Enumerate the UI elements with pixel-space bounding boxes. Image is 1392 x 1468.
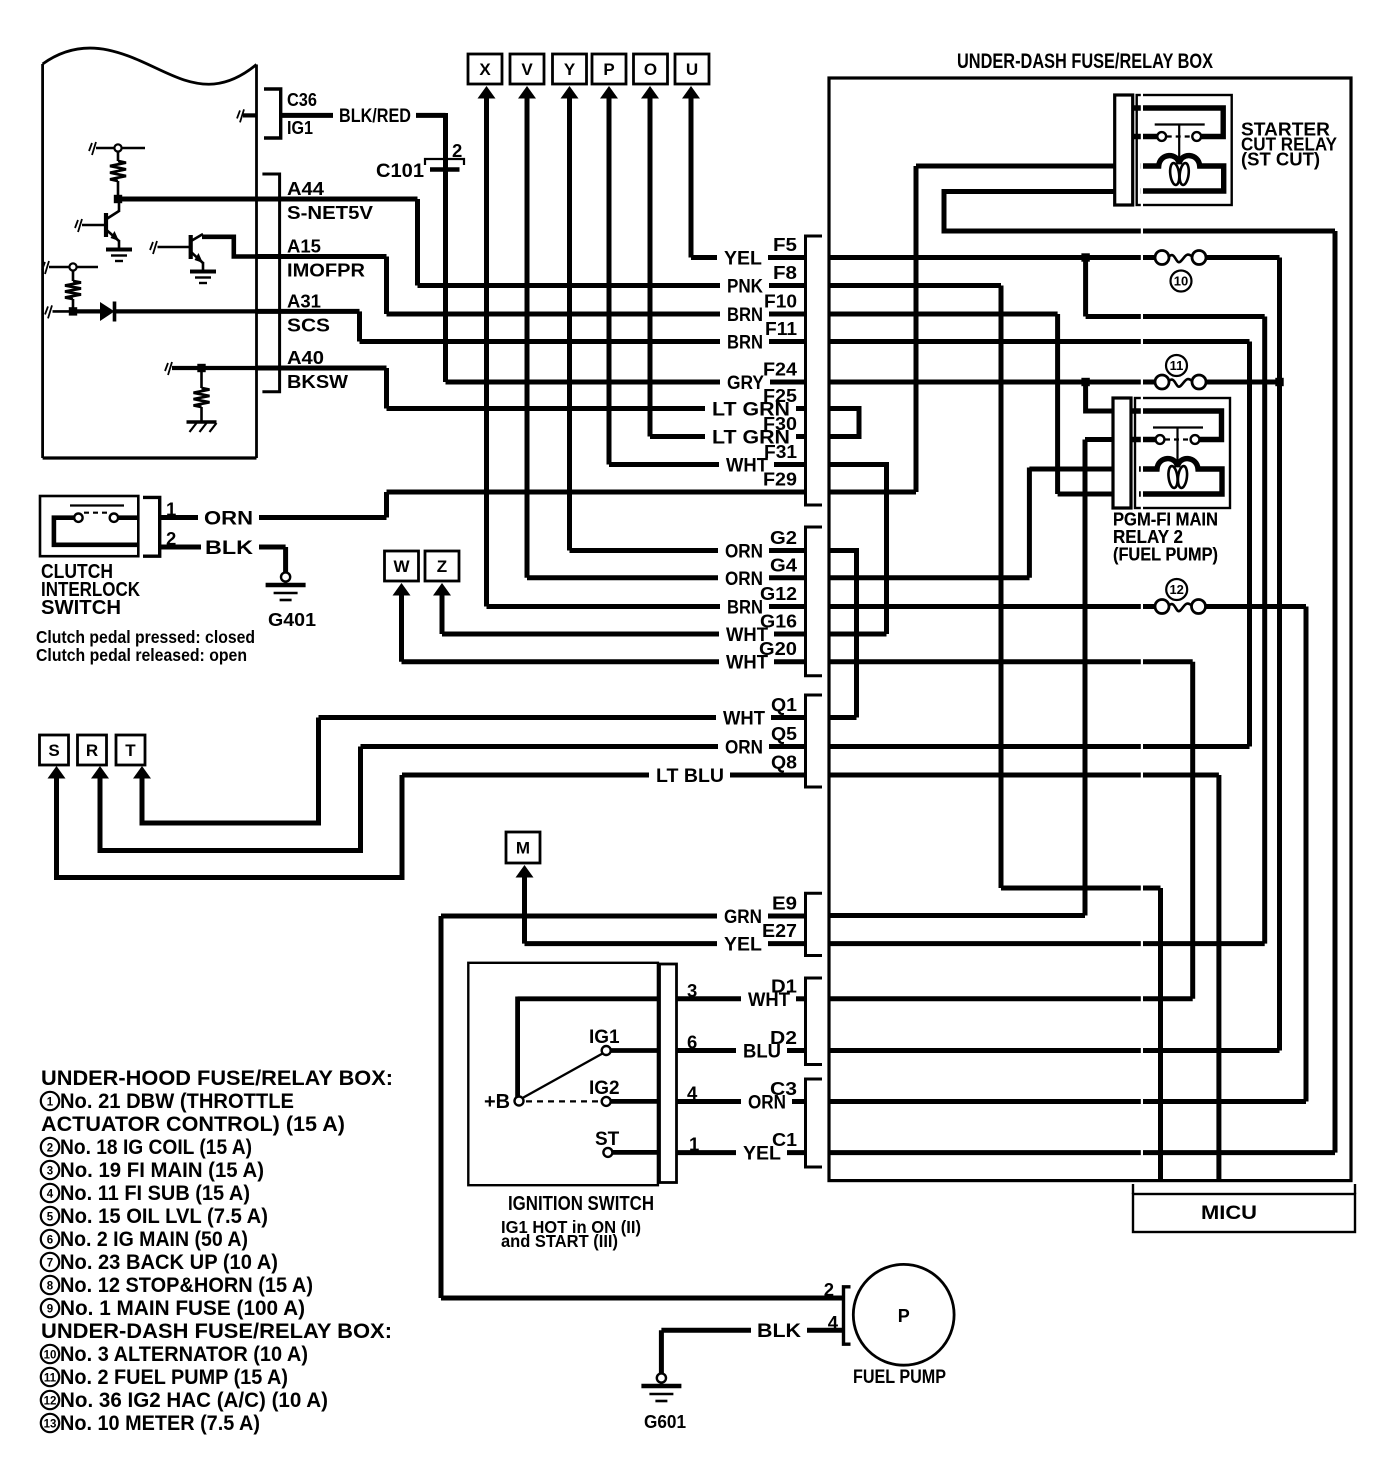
wire BLK down to G601	[659, 1330, 664, 1373]
svg-text:WHT: WHT	[723, 708, 765, 730]
svg-text:3: 3	[47, 1166, 53, 1178]
connector Y box	[553, 54, 587, 84]
wire A15 jog down to BRN/F10 row	[384, 257, 389, 315]
connector P arrow	[600, 86, 618, 99]
wire C1 row inside box	[829, 1150, 1335, 1155]
under-dash fuse/relay box outline	[829, 78, 1351, 1181]
wire stem from U	[689, 97, 694, 258]
svg-text:O: O	[644, 60, 657, 79]
wire link y888	[1001, 886, 1161, 891]
wire stem from M to E27 row	[522, 876, 527, 944]
svg-text:G601: G601	[644, 1411, 686, 1432]
fuse 11	[1155, 375, 1206, 389]
wire G2 row inside box	[829, 551, 857, 718]
wire X corner to BRN/G12 row	[487, 604, 806, 609]
clutch switch contact blade	[70, 504, 124, 506]
chassis ground at BKSW resistor	[187, 422, 217, 432]
svg-text:BKSW: BKSW	[287, 371, 349, 392]
legend item 6: No. 2 IG MAIN (50 A)	[41, 1227, 248, 1251]
wire relay 2 coil feed from G4 riser	[1029, 467, 1113, 472]
wire E27 row inside box	[829, 941, 1265, 946]
svg-text:S: S	[48, 741, 59, 760]
wire x1057 from F10 down	[1055, 314, 1060, 494]
svg-text:GRY: GRY	[727, 372, 764, 394]
wire F29 row inside box	[829, 490, 916, 495]
wire x1264 from E27 up to y316	[1262, 317, 1267, 944]
svg-text:F10: F10	[764, 292, 797, 312]
clutch interlock switch box	[40, 496, 138, 556]
wire D1 row inside box	[829, 996, 1193, 1001]
svg-text:BLK: BLK	[757, 1320, 801, 1342]
wire x886 down to G16 row	[884, 492, 889, 634]
legend item 12: No. 36 IG2 HAC (A/C) (10 A)	[41, 1388, 328, 1412]
connector Y arrow	[561, 86, 579, 99]
svg-text:No. 3 ALTERNATOR (10 A): No. 3 ALTERNATOR (10 A)	[60, 1342, 308, 1366]
wire LT BLU/Q8 row	[402, 773, 806, 778]
svg-text:BLK/RED: BLK/RED	[339, 105, 411, 127]
wire from C101 down to GRY/F24 row	[443, 159, 448, 382]
svg-text:F11: F11	[765, 319, 797, 339]
ignition IG2 contact	[602, 1097, 658, 1106]
wire WHT/F31 row	[609, 462, 806, 467]
legend item 13: No. 10 METER (7.5 A)	[41, 1411, 260, 1435]
connector T box	[116, 735, 145, 765]
svg-text:GRN: GRN	[724, 906, 762, 928]
svg-text:E9: E9	[772, 894, 797, 914]
in-line connector C101	[425, 159, 464, 170]
svg-text:No. 15 OIL LVL (7.5 A): No. 15 OIL LVL (7.5 A)	[60, 1204, 268, 1228]
connector M box	[506, 832, 540, 863]
wire F25 jumper to F30 inside box	[829, 409, 859, 437]
wire x1001 from F8 down	[999, 286, 1004, 889]
svg-text:Y: Y	[564, 60, 576, 79]
svg-text:Clutch pedal pressed: closed: Clutch pedal pressed: closed	[36, 627, 255, 647]
junction dot fuse11 out	[1275, 378, 1283, 386]
svg-text:A44: A44	[287, 178, 325, 199]
connector X arrow	[478, 86, 496, 99]
wire stem from X	[484, 97, 489, 607]
svg-text:UNDER-DASH FUSE/RELAY BOX: UNDER-DASH FUSE/RELAY BOX	[957, 49, 1213, 73]
connector bracket clutch switch	[143, 497, 160, 556]
wire x1335 from relay return down to C1 row	[1333, 231, 1338, 1153]
wire LT GRN/F25 row	[387, 406, 806, 411]
transistor Q-b (NPN, collector to A15/IMOFPR)	[191, 234, 257, 271]
svg-text:C36: C36	[287, 89, 317, 110]
wire F5 row inside box	[829, 255, 1280, 260]
legend item 1: No. 21 DBW (THROTTLE	[41, 1089, 294, 1113]
svg-text:10: 10	[1174, 274, 1188, 289]
connector W box	[385, 551, 419, 581]
svg-text:No. 36 IG2 HAC (A/C) (10 A): No. 36 IG2 HAC (A/C) (10 A)	[60, 1388, 328, 1412]
wire y316 link from x1085	[1086, 314, 1265, 319]
wire GRN/E9 row	[441, 914, 806, 919]
connector M arrow	[516, 865, 534, 878]
svg-text:No. 18 IG COIL (15 A): No. 18 IG COIL (15 A)	[60, 1135, 252, 1159]
svg-text:BRN: BRN	[727, 304, 763, 326]
internal supply rail with terminal circle (top)	[89, 142, 145, 155]
wire x1218 from Q8 down to MICU	[1216, 775, 1221, 1181]
wire WHT/Q1 row	[319, 715, 806, 720]
svg-text:ORN: ORN	[725, 737, 763, 759]
ignition switch +B riser	[515, 997, 520, 1102]
svg-text:SCS: SCS	[287, 314, 330, 335]
svg-text:UNDER-DASH FUSE/RELAY BOX:: UNDER-DASH FUSE/RELAY BOX:	[41, 1319, 392, 1343]
wire stem from Y	[567, 97, 572, 551]
connector T arrow	[133, 766, 151, 779]
connector bracket ignition switch	[660, 964, 677, 1183]
connector O box	[634, 54, 668, 84]
wire WHT/D1 row	[677, 996, 806, 1001]
resistor R-a (pull-up to A44 node)	[110, 151, 126, 199]
wire C3 row inside box	[829, 1099, 1306, 1104]
svg-text:D1: D1	[771, 976, 797, 996]
svg-text:V: V	[521, 60, 533, 79]
wire G16 row inside box	[829, 632, 887, 637]
svg-text:Q1: Q1	[771, 695, 797, 715]
wire GRY/F24 row	[446, 380, 806, 385]
legend item 9: No. 1 MAIN FUSE (100 A)	[41, 1296, 305, 1320]
svg-text:No. 2 FUEL PUMP (15 A): No. 2 FUEL PUMP (15 A)	[60, 1365, 288, 1389]
svg-text:2: 2	[452, 140, 462, 161]
svg-text:ACTUATOR CONTROL) (15 A): ACTUATOR CONTROL) (15 A)	[41, 1112, 345, 1136]
svg-text:A15: A15	[287, 236, 321, 257]
transistor Q-b base wire	[150, 241, 189, 254]
connector bracket fuel pump	[844, 1287, 851, 1344]
fuse 12 number	[1166, 579, 1187, 600]
svg-text:G16: G16	[760, 612, 797, 632]
wire Q5 row inside box	[829, 744, 1250, 749]
svg-text:IG1: IG1	[287, 117, 313, 138]
svg-text:IG2: IG2	[589, 1078, 620, 1099]
wire W corner to WHT/G20 row	[402, 659, 806, 664]
relay PGM-FI main relay 2	[1113, 398, 1230, 508]
svg-text:11: 11	[1170, 358, 1184, 373]
relay starter cut (ST CUT)	[1115, 95, 1232, 205]
svg-text:E27: E27	[762, 921, 797, 941]
legend item 11: No. 2 FUEL PUMP (15 A)	[41, 1365, 288, 1389]
legend item 5: No. 15 OIL LVL (7.5 A)	[41, 1204, 268, 1228]
wire from S to Q8 row	[57, 775, 403, 878]
svg-text:YEL: YEL	[724, 934, 762, 956]
svg-text:ORN: ORN	[204, 508, 253, 530]
svg-text:(FUEL PUMP): (FUEL PUMP)	[1113, 544, 1218, 565]
wire x1085 from F24 dot to relay 2 contact	[1086, 382, 1113, 411]
fuse 10 number	[1171, 271, 1192, 292]
wire F29 row from clutch ORN	[387, 490, 806, 495]
wire BLK/RED from IG1 pin	[281, 113, 446, 118]
svg-text:BLK: BLK	[205, 537, 253, 559]
wire fuel pump feed row	[441, 1296, 844, 1301]
wire E9 row inside box	[829, 913, 1085, 918]
svg-text:2: 2	[47, 1143, 53, 1155]
connector U box	[675, 54, 709, 84]
internal rail with terminal circle (A31 pull-up)	[42, 261, 98, 274]
svg-text:No. 2 IG MAIN (50 A): No. 2 IG MAIN (50 A)	[60, 1227, 248, 1251]
clutch switch dashed state line	[84, 512, 109, 514]
wire BLU/D2 row	[677, 1048, 806, 1053]
svg-text:(ST CUT): (ST CUT)	[1241, 150, 1320, 170]
svg-text:G2: G2	[770, 528, 797, 548]
wire A15 row from ECM	[257, 254, 387, 259]
svg-text:S-NET5V: S-NET5V	[287, 202, 374, 223]
wire E9 drop to fuel pump feed	[439, 916, 444, 1298]
ignition ST contact	[603, 1148, 658, 1157]
connector S arrow	[48, 766, 66, 779]
wire x1279 fuse output down to D2 row	[1277, 258, 1282, 1051]
wire G4 row inside box	[829, 575, 1030, 580]
wire BLK from clutch pin 2	[160, 545, 286, 550]
terminal +B circle	[515, 1097, 524, 1106]
fuse 11 number	[1166, 355, 1187, 376]
connector R box	[78, 735, 107, 765]
svg-text:ORN: ORN	[725, 568, 763, 590]
connector Z box	[425, 551, 459, 581]
svg-text:11: 11	[44, 1373, 57, 1385]
svg-text:F30: F30	[763, 414, 797, 434]
svg-text:5: 5	[47, 1212, 54, 1224]
legend item 8: No. 12 STOP&HORN (15 A)	[41, 1273, 313, 1297]
connector bracket A-pins	[262, 174, 279, 392]
wire from R to Q5 row	[100, 747, 361, 851]
ignition switch +B feed wire	[518, 996, 658, 1001]
MICU box	[1133, 1184, 1355, 1232]
connector W arrow	[393, 583, 411, 596]
svg-text:F29: F29	[763, 470, 797, 490]
svg-text:6: 6	[47, 1235, 53, 1247]
wire LT GRN/F30 row	[650, 434, 806, 439]
svg-text:G20: G20	[759, 639, 797, 659]
clutch switch contact circles	[74, 514, 118, 522]
wire A44 jog down to PNK row	[415, 199, 420, 286]
wire G12 row inside box to fuse 12	[829, 604, 1306, 609]
wire A40/BKSW from left with break	[165, 362, 257, 375]
clutch switch internal wiring	[54, 518, 137, 545]
wire YEL/C1 row	[677, 1150, 806, 1155]
svg-text:13: 13	[44, 1419, 57, 1431]
svg-text:F24: F24	[763, 360, 797, 380]
legend item 4: No. 11 FI SUB (15 A)	[41, 1181, 250, 1205]
connector bracket C36/IG1	[264, 89, 281, 138]
ground G401	[266, 572, 306, 600]
wire Q1 row inside box	[829, 715, 857, 720]
wire starter relay coil return	[944, 192, 1335, 232]
wire PNK/F8 row	[418, 283, 806, 288]
svg-text:IG1: IG1	[589, 1027, 620, 1048]
connector P box	[592, 54, 626, 84]
connector O arrow	[641, 86, 659, 99]
connector bracket E-rows	[806, 893, 823, 955]
ignition switch box	[468, 963, 658, 1185]
svg-text:Q5: Q5	[771, 724, 797, 744]
connector U arrow	[682, 86, 700, 99]
wire V corner to ORN/G4 row	[527, 575, 806, 580]
legend item 3: No. 19 FI MAIN (15 A)	[41, 1158, 264, 1182]
wire branch G4 riser x1029	[1027, 468, 1032, 578]
ground at Q-a emitter	[106, 250, 132, 262]
resistor R-b (to A31 node)	[65, 270, 81, 311]
svg-text:FUEL PUMP: FUEL PUMP	[853, 1366, 946, 1388]
svg-text:7: 7	[47, 1258, 53, 1270]
wire ORN jog up to F29 row	[384, 492, 389, 518]
svg-text:IMOFPR: IMOFPR	[287, 260, 365, 281]
ignition rotor line +B to IG1	[523, 1054, 603, 1099]
wire stem from W to G20 row	[399, 594, 404, 662]
ground at Q-b emitter	[190, 272, 216, 284]
wire BLK down to G401	[283, 547, 288, 573]
print artifact white stripe	[1141, 84, 1143, 1178]
wire A44/S-NET5V from node to connector	[118, 197, 418, 202]
wire D2 row inside box	[829, 1048, 1280, 1053]
svg-text:A40: A40	[287, 347, 324, 368]
svg-text:No. 19 FI MAIN (15 A): No. 19 FI MAIN (15 A)	[60, 1158, 264, 1182]
wire x1192 from G20 down to D1 row	[1190, 662, 1195, 999]
wire A40 row from ECM	[257, 366, 387, 371]
wire ORN/C3 row	[677, 1099, 806, 1104]
legend item 7: No. 23 BACK UP (10 A)	[41, 1250, 278, 1274]
wire ORN from clutch pin 1	[160, 515, 387, 520]
wire starter relay coil feed	[916, 164, 1115, 169]
svg-text:F8: F8	[773, 263, 797, 283]
wire BRN/F11 row	[360, 339, 806, 344]
wire F10 row inside box	[829, 312, 1058, 317]
svg-text:12: 12	[1169, 582, 1183, 597]
fuel pump motor circle	[853, 1264, 954, 1365]
wire BRN/F10 row	[387, 312, 806, 317]
svg-text:No. 1 MAIN FUSE (100 A): No. 1 MAIN FUSE (100 A)	[60, 1296, 305, 1320]
connector Z arrow	[433, 583, 451, 596]
wire x916 up to starter cut relay	[914, 166, 919, 492]
connector X box	[468, 54, 502, 84]
svg-text:C1: C1	[772, 1130, 797, 1150]
wire B x1085 relay2 contact to E9 row	[1083, 440, 1088, 916]
svg-text:PNK: PNK	[727, 276, 763, 298]
svg-text:1: 1	[47, 1097, 54, 1109]
svg-text:D2: D2	[770, 1028, 797, 1048]
svg-text:LT BLU: LT BLU	[656, 765, 724, 787]
svg-text:G401: G401	[268, 609, 316, 630]
svg-text:W: W	[393, 557, 410, 576]
svg-text:No. 21 DBW (THROTTLE: No. 21 DBW (THROTTLE	[60, 1089, 294, 1113]
svg-text:UNDER-HOOD FUSE/RELAY BOX:: UNDER-HOOD FUSE/RELAY BOX:	[41, 1066, 393, 1090]
node A44 junction dot	[114, 195, 122, 203]
ECM/PCM box outline with torn top edge	[43, 48, 257, 458]
svg-text:BRN: BRN	[727, 332, 763, 354]
junction dot F24/x1085	[1081, 378, 1089, 386]
svg-text:WHT: WHT	[726, 455, 768, 477]
wire C36/IG1 inside ECM with break	[237, 109, 257, 122]
svg-text:C101: C101	[376, 160, 424, 182]
fuse 10	[1155, 251, 1206, 265]
connector bracket C-rows	[806, 1079, 823, 1167]
junction dot F5/x1085	[1081, 253, 1089, 261]
wire A40 jog down to LT GRN/F25 row	[384, 368, 389, 409]
wire A31 row jog down to BRN/F11 row	[357, 311, 362, 341]
connector V box	[510, 54, 544, 84]
svg-text:Z: Z	[437, 557, 447, 576]
wire relay 2 contact-left link	[1085, 437, 1113, 442]
wire YEL/E27 row	[525, 941, 806, 946]
wire F11 row inside box	[829, 339, 1250, 344]
svg-text:M: M	[516, 839, 530, 858]
wire x1085 from F5 dot down to y316	[1083, 258, 1088, 317]
wire x1249 from F11 down to Q5 row	[1247, 342, 1252, 747]
legend item 10: No. 3 ALTERNATOR (10 A)	[41, 1342, 308, 1366]
svg-text:IGNITION SWITCH: IGNITION SWITCH	[508, 1193, 654, 1215]
svg-text:ST: ST	[595, 1129, 620, 1150]
svg-text:G12: G12	[760, 584, 797, 604]
wire stem from P	[607, 97, 612, 465]
svg-text:G4: G4	[770, 555, 797, 575]
svg-text:Q8: Q8	[771, 753, 797, 773]
svg-text:C3: C3	[770, 1079, 797, 1099]
ground G601	[641, 1373, 681, 1401]
connector bracket D-rows	[806, 978, 823, 1065]
connector V arrow	[518, 86, 536, 99]
fuse 12	[1155, 600, 1206, 614]
transistor Q-a (NPN, collector to A44 node)	[106, 199, 119, 249]
svg-text:4: 4	[47, 1189, 54, 1201]
ignition dashed line +B to IG2	[526, 1100, 600, 1102]
svg-text:T: T	[125, 741, 136, 760]
resistor R-c (BKSW pull-down)	[194, 368, 210, 421]
connector R arrow	[91, 766, 109, 779]
svg-text:12: 12	[44, 1396, 57, 1408]
wire x1160 down to MICU	[1158, 888, 1163, 1181]
wire Y corner to ORN/G2 row	[570, 548, 806, 553]
node A31 junction dot	[69, 307, 77, 315]
node A40 junction dot	[197, 364, 205, 372]
wire stem from O	[648, 97, 653, 437]
connector bracket G-rows	[806, 527, 823, 676]
wire BLK from fuel pump pin 4	[661, 1328, 843, 1333]
wire YEL/F5 row	[691, 255, 806, 260]
svg-text:P: P	[603, 60, 614, 79]
wire stem from Z to G16 row	[440, 594, 445, 634]
wire A31 row from ECM	[257, 309, 360, 314]
connector bracket Q-rows	[806, 695, 823, 787]
wire A31/SCS from left with break	[45, 305, 73, 318]
wire x1306 from fuse 12 down to C3 row	[1304, 607, 1309, 1102]
wire G20 row inside box	[829, 659, 1193, 664]
svg-text:F25: F25	[763, 386, 797, 406]
svg-text:P: P	[898, 1306, 910, 1326]
diode D-a (series in A31/SCS line)	[73, 302, 257, 322]
wire F24 row inside box to fuse 11	[829, 380, 1280, 385]
svg-text:BRN: BRN	[727, 597, 763, 619]
svg-text:F5: F5	[773, 235, 797, 255]
wire Z corner to WHT/G16 row	[442, 632, 806, 637]
svg-text:No. 23 BACK UP (10 A): No. 23 BACK UP (10 A)	[60, 1250, 278, 1274]
wire ORN/Q5 row	[361, 744, 806, 749]
svg-text:A31: A31	[287, 290, 321, 311]
svg-text:No. 10 METER (7.5 A): No. 10 METER (7.5 A)	[60, 1411, 260, 1435]
svg-text:No. 12 STOP&HORN (15 A): No. 12 STOP&HORN (15 A)	[60, 1273, 313, 1297]
svg-text:and START (III): and START (III)	[501, 1231, 618, 1251]
wire y494 link to relay 2 coil return	[1058, 492, 1113, 497]
svg-text:Clutch pedal released: open: Clutch pedal released: open	[36, 645, 247, 665]
wire F8 row inside box	[829, 283, 1001, 288]
connector bracket F-rows	[806, 236, 823, 505]
svg-text:F31: F31	[764, 442, 797, 462]
connector S box	[40, 735, 69, 765]
svg-text:8: 8	[47, 1281, 54, 1293]
ignition IG1 contact	[602, 1046, 658, 1055]
wire F31 row inside box	[829, 465, 887, 493]
svg-text:U: U	[686, 60, 698, 79]
svg-text:9: 9	[47, 1304, 53, 1316]
svg-text:YEL: YEL	[724, 248, 762, 270]
wire stem from V	[525, 97, 530, 578]
